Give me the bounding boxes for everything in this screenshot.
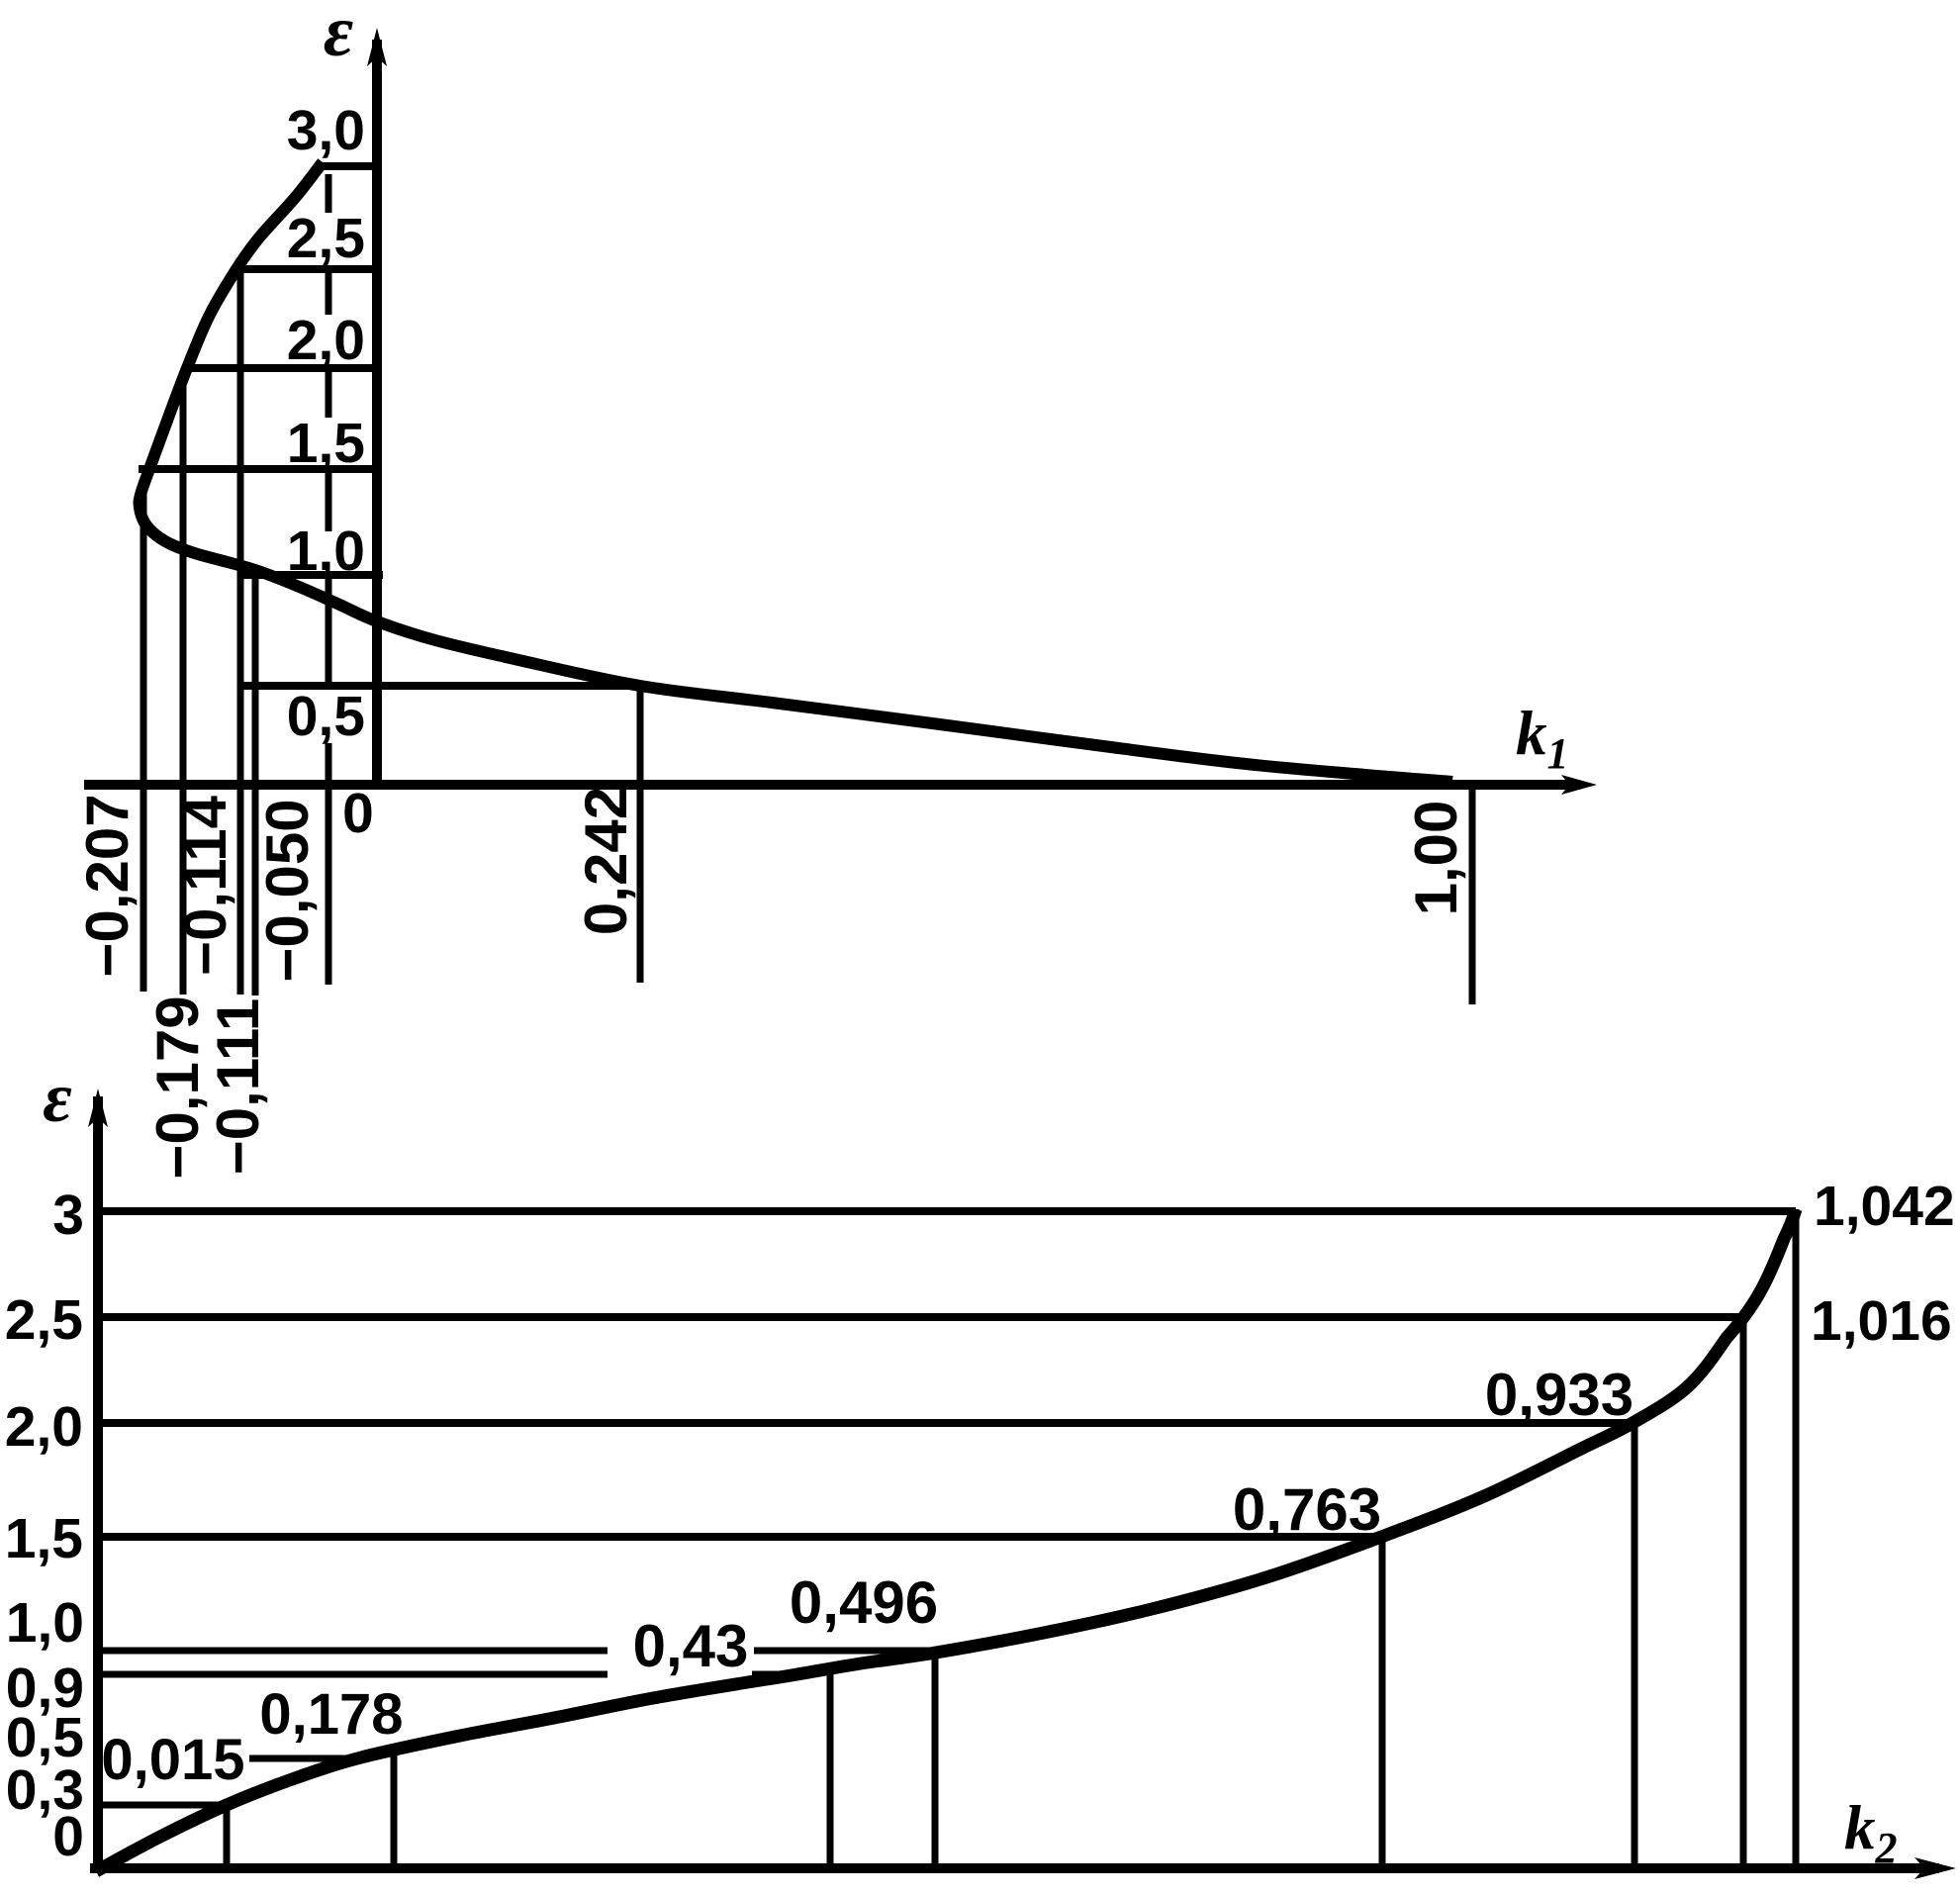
svg-text:k2: k2 <box>1844 1793 1898 1872</box>
bottom chart vertical at k=0.763 point <box>1379 1535 1386 1868</box>
bottom chart vertical at k=0.178 point <box>391 1749 398 1868</box>
bottom chart gridline eps=3 <box>98 1207 1796 1215</box>
bottom chart gridline eps=2,0 <box>98 1419 1633 1427</box>
bottom chart gridline eps=1,5 <box>98 1533 1381 1541</box>
svg-text:3,0: 3,0 <box>287 99 365 162</box>
svg-text:2,0: 2,0 <box>5 1395 83 1459</box>
top chart construction line k=0.242 <box>637 686 644 983</box>
svg-text:1,5: 1,5 <box>287 412 365 475</box>
bottom chart gridline eps=1,0 (left part) <box>98 1648 607 1655</box>
top chart construction line k=1.00 <box>1469 785 1476 1004</box>
bottom chart epsilon axis <box>93 1096 103 1872</box>
bottom chart vertical at k=1.042 point <box>1793 1209 1800 1868</box>
bottom chart vertical at k=0.015 point <box>224 1805 231 1868</box>
bottom chart gridline eps=0,9 (left part) <box>98 1671 607 1678</box>
bottom chart k2 axis arrowhead <box>1914 1857 1956 1879</box>
top chart epsilon axis arrowhead <box>367 28 387 66</box>
svg-text:2,5: 2,5 <box>287 207 365 270</box>
svg-text:−0,111: −0,111 <box>205 998 271 1176</box>
top chart k1 axis <box>84 780 1579 790</box>
svg-text:2,5: 2,5 <box>5 1288 83 1352</box>
bottom chart gridline eps=0,5 (short segment after label) <box>249 1755 364 1762</box>
top chart construction line k=-0.207 <box>140 485 147 992</box>
svg-text:1,016: 1,016 <box>1811 1289 1952 1353</box>
bottom chart gridline eps=0,9 (right part to curve) <box>752 1671 797 1678</box>
top chart epsilon axis <box>372 40 382 785</box>
bottom chart vertical at k=0.933 point <box>1632 1420 1638 1868</box>
svg-text:k1: k1 <box>1516 699 1569 778</box>
bottom chart vertical at k=1.016 point <box>1740 1311 1747 1868</box>
top chart construction line k=-0.111 <box>252 570 259 995</box>
svg-text:3: 3 <box>52 1184 84 1247</box>
svg-text:0,015: 0,015 <box>101 1728 244 1792</box>
svg-text:0,933: 0,933 <box>1485 1362 1633 1428</box>
svg-text:0,242: 0,242 <box>573 787 639 935</box>
svg-text:−0,207: −0,207 <box>74 794 140 977</box>
svg-text:1,042: 1,042 <box>1814 1175 1955 1238</box>
top chart dashed construction line k=-0.050 <box>326 174 332 785</box>
svg-text:0: 0 <box>342 782 374 845</box>
bottom chart vertical at k=0.496 point <box>932 1651 939 1868</box>
svg-text:−0,179: −0,179 <box>144 995 211 1179</box>
svg-text:0,178: 0,178 <box>259 1682 403 1747</box>
top chart construction line k=-0.179 <box>180 378 187 995</box>
bottom chart gridline eps=1,0 (right part to curve) <box>754 1648 930 1655</box>
svg-text:1,00: 1,00 <box>1403 801 1469 916</box>
svg-text:−0,050: −0,050 <box>254 799 321 982</box>
bottom chart gridline eps=0,3 <box>98 1802 228 1809</box>
svg-text:−0,114: −0,114 <box>172 795 238 976</box>
top chart gridline eps=2.0 <box>187 364 377 372</box>
bottom chart k2 axis <box>90 1863 1939 1873</box>
top chart construction line k=-0.050 below axis <box>326 785 332 985</box>
top chart gridline eps=0.5 <box>243 682 641 690</box>
bottom chart vertical at k=0.43 point <box>827 1667 834 1868</box>
svg-text:2,0: 2,0 <box>287 309 365 372</box>
svg-text:0,5: 0,5 <box>287 685 365 748</box>
top chart k1 axis arrowhead <box>1561 775 1597 795</box>
bottom chart epsilon axis arrowhead <box>88 1089 108 1127</box>
top chart gridline eps=1.5 <box>139 465 377 473</box>
svg-text:0,43: 0,43 <box>633 1613 749 1679</box>
top chart curve <box>140 162 1452 782</box>
bottom chart gridline eps=2,5 <box>98 1313 1743 1321</box>
svg-text:1,0: 1,0 <box>6 1591 84 1655</box>
svg-text:ε: ε <box>324 0 353 72</box>
top chart gridline eps=2.5 <box>236 265 377 273</box>
svg-text:0,496: 0,496 <box>790 1569 938 1636</box>
top chart gridline eps=1.0 <box>243 571 383 579</box>
svg-text:1,5: 1,5 <box>5 1507 83 1570</box>
svg-text:0: 0 <box>52 1805 84 1868</box>
bottom chart curve <box>96 1209 1796 1871</box>
svg-text:ε: ε <box>43 1058 72 1137</box>
svg-text:0,763: 0,763 <box>1233 1476 1381 1543</box>
top chart construction line k=-0.114 <box>237 273 244 995</box>
top chart gridline eps=3.0 <box>323 162 377 170</box>
